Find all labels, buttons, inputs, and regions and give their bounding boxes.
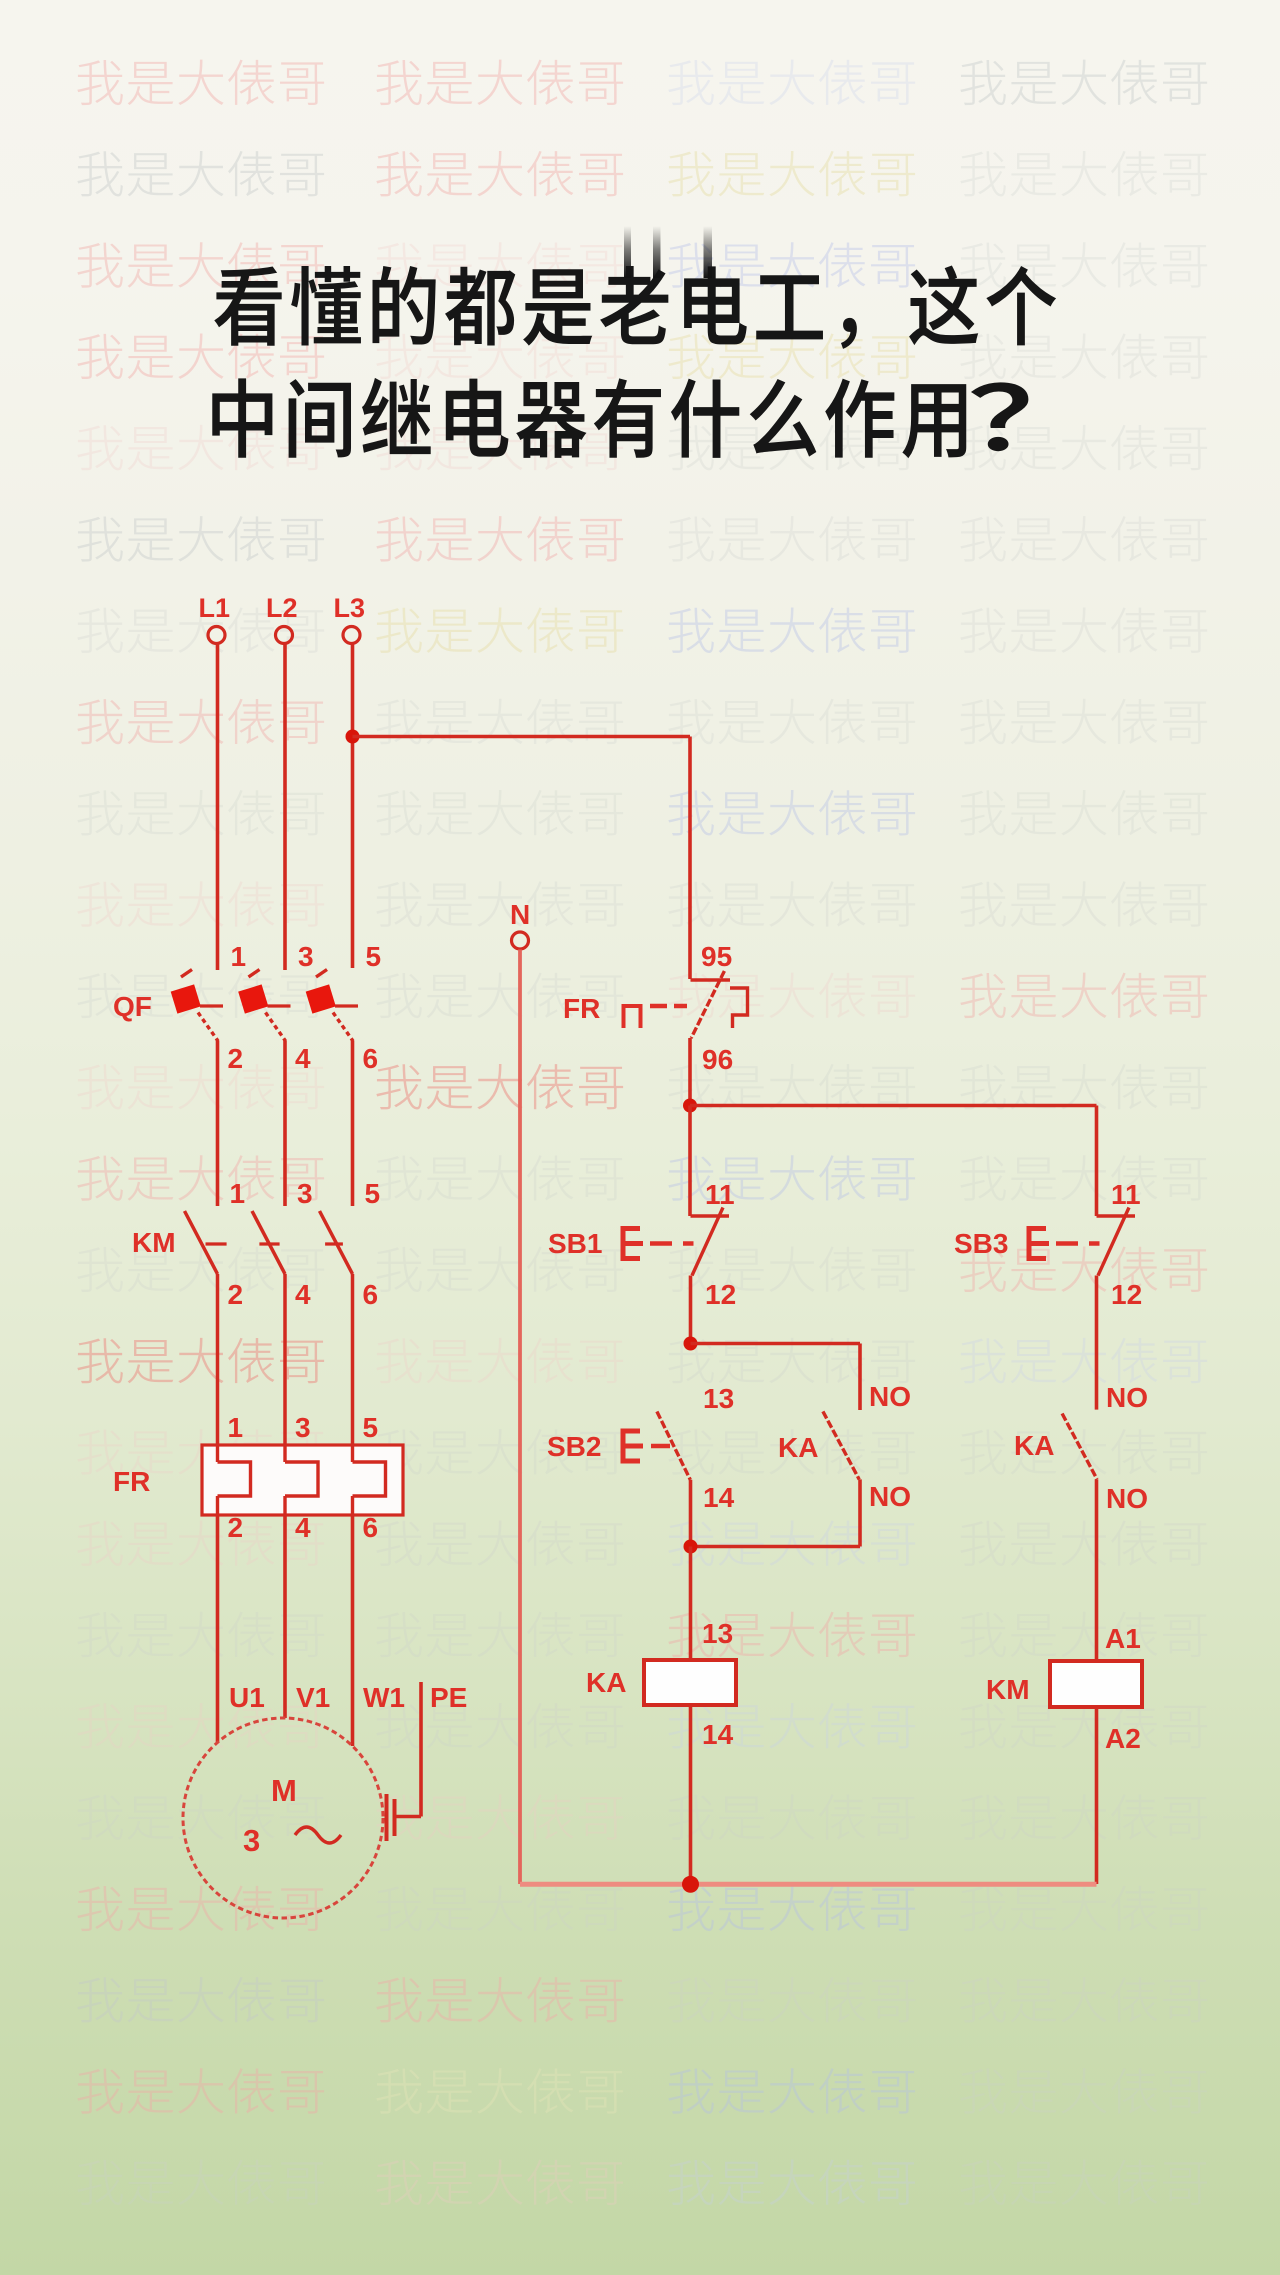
wire KA coil to N rail bbox=[689, 1705, 693, 1884]
wire KM coil to N rail bbox=[1095, 1707, 1099, 1884]
wire SB1 to node 13 bbox=[689, 1276, 693, 1344]
svg-text:14: 14 bbox=[702, 1719, 734, 1750]
svg-text:A2: A2 bbox=[1105, 1723, 1141, 1754]
svg-text:M: M bbox=[271, 1773, 297, 1808]
svg-text:3: 3 bbox=[298, 941, 314, 972]
wire latch branch bottom bbox=[691, 1479, 861, 1546]
svg-text:1: 1 bbox=[230, 1178, 246, 1209]
svg-text:U1: U1 bbox=[229, 1682, 265, 1713]
contactor KM main contact pole 2 bbox=[252, 1178, 313, 1310]
contactor KM main contacts label bbox=[132, 1227, 176, 1258]
svg-text:NO: NO bbox=[869, 1481, 911, 1512]
wire KM-6 to FR bbox=[351, 1274, 355, 1447]
svg-text:KA: KA bbox=[1014, 1430, 1054, 1461]
svg-text:4: 4 bbox=[295, 1043, 311, 1074]
svg-text:4: 4 bbox=[295, 1512, 311, 1543]
svg-text:3: 3 bbox=[295, 1412, 311, 1443]
node self-latch top bbox=[684, 1337, 698, 1351]
svg-text:KM: KM bbox=[132, 1227, 176, 1258]
contactor KM main contact pole 1 bbox=[185, 1178, 246, 1310]
svg-text:SB2: SB2 bbox=[547, 1431, 601, 1462]
terminal L1 bbox=[199, 593, 231, 644]
wire SB3 to KA contact bbox=[1095, 1276, 1099, 1410]
wire branch to SB3 bbox=[690, 1106, 1097, 1217]
FR NC contact 95-96 bbox=[563, 941, 748, 1075]
relay coil KA bbox=[586, 1618, 736, 1750]
svg-text:12: 12 bbox=[1111, 1279, 1142, 1310]
svg-text:14: 14 bbox=[703, 1482, 735, 1513]
svg-text:V1: V1 bbox=[296, 1682, 330, 1713]
wire node to KA coil bbox=[689, 1547, 693, 1661]
svg-text:A1: A1 bbox=[1105, 1623, 1141, 1654]
svg-text:KA: KA bbox=[586, 1667, 626, 1698]
pushbutton SB2 (NO start) bbox=[547, 1412, 735, 1514]
svg-text:KA: KA bbox=[778, 1432, 818, 1463]
contact KA self-latch (NO) bbox=[778, 1411, 911, 1512]
motor M 3~ bbox=[183, 1718, 383, 1918]
svg-text:11: 11 bbox=[1111, 1179, 1141, 1210]
node control tap on L3 bbox=[346, 730, 360, 744]
FR heater element pole 2 bbox=[285, 1445, 318, 1543]
svg-text:W1: W1 bbox=[363, 1682, 405, 1713]
label 13 / NO bbox=[703, 1381, 911, 1414]
node 96 branch bbox=[683, 1099, 697, 1113]
wire L3 to QF bbox=[351, 644, 355, 968]
svg-text:FR: FR bbox=[113, 1466, 150, 1497]
wire V1 bbox=[283, 1515, 287, 1718]
svg-text:6: 6 bbox=[363, 1279, 379, 1310]
breaker QF pole 2 bbox=[238, 941, 313, 1074]
wire KM-2 to FR bbox=[216, 1274, 220, 1447]
wire KA contact to KM coil bbox=[1095, 1479, 1099, 1661]
wire QF-6 to KM bbox=[351, 1041, 355, 1207]
breaker QF pole 3 bbox=[306, 941, 381, 1074]
svg-text:2: 2 bbox=[228, 1512, 244, 1543]
svg-text:L3: L3 bbox=[334, 593, 366, 623]
title text line 1 bbox=[214, 265, 1056, 348]
node self-latch bottom bbox=[684, 1540, 698, 1554]
svg-text:KM: KM bbox=[986, 1674, 1030, 1705]
svg-text:4: 4 bbox=[295, 1279, 311, 1310]
svg-text:5: 5 bbox=[363, 1412, 379, 1443]
pushbutton SB3 (NC) bbox=[954, 1179, 1142, 1310]
svg-text:NO: NO bbox=[869, 1381, 911, 1412]
wire control feed horizontal bbox=[353, 735, 691, 739]
svg-text:SB3: SB3 bbox=[954, 1228, 1008, 1259]
svg-text:96: 96 bbox=[702, 1044, 733, 1075]
N bottom rail bbox=[520, 1882, 1097, 1887]
svg-text:PE: PE bbox=[430, 1682, 467, 1713]
PE earth wire bbox=[394, 1682, 421, 1817]
KM linkage dashes bbox=[206, 1242, 343, 1245]
svg-text:1: 1 bbox=[228, 1412, 244, 1443]
FR heater element pole 3 bbox=[353, 1445, 386, 1543]
svg-text:11: 11 bbox=[705, 1179, 735, 1210]
terminal N bbox=[510, 899, 530, 949]
wire U1 bbox=[216, 1515, 220, 1742]
terminal L3 bbox=[334, 593, 366, 644]
svg-text:SB1: SB1 bbox=[548, 1228, 602, 1259]
wire node to SB1 bbox=[688, 1106, 692, 1217]
contactor KM main contact pole 3 bbox=[320, 1178, 381, 1310]
breaker QF pole 1 bbox=[171, 941, 246, 1074]
wire QF-2 to KM bbox=[216, 1041, 220, 1207]
contact KA (NO) right bbox=[1014, 1382, 1148, 1514]
title text line 2 bbox=[212, 378, 1028, 458]
svg-text:L1: L1 bbox=[199, 593, 231, 623]
svg-text:1: 1 bbox=[231, 941, 247, 972]
wire control feed vertical to FR 95 bbox=[688, 737, 692, 980]
svg-text:12: 12 bbox=[705, 1279, 736, 1310]
svg-text:6: 6 bbox=[363, 1512, 379, 1543]
wire L1 to QF bbox=[216, 644, 220, 970]
svg-text:5: 5 bbox=[365, 1178, 381, 1209]
wire L2 to QF bbox=[283, 644, 287, 970]
svg-text:NO: NO bbox=[1106, 1483, 1148, 1514]
contactor coil KM bbox=[986, 1623, 1142, 1754]
fading stroke tops above title bbox=[624, 226, 712, 278]
svg-text:95: 95 bbox=[701, 941, 732, 972]
svg-text:N: N bbox=[510, 899, 530, 930]
wire KM-4 to FR bbox=[283, 1274, 287, 1447]
svg-text:QF: QF bbox=[113, 991, 152, 1022]
svg-text:5: 5 bbox=[366, 941, 382, 972]
wire W1 bbox=[351, 1515, 355, 1746]
wire 96 to node bbox=[688, 1038, 692, 1106]
svg-text:FR: FR bbox=[563, 993, 600, 1024]
label U1 V1 W1 PE bbox=[229, 1682, 467, 1713]
wire N riser bbox=[518, 950, 522, 1885]
svg-text:2: 2 bbox=[228, 1279, 244, 1310]
svg-text:13: 13 bbox=[702, 1618, 733, 1649]
svg-text:2: 2 bbox=[228, 1043, 244, 1074]
PE terminal bars bbox=[387, 1794, 395, 1841]
breaker QF label bbox=[113, 991, 152, 1022]
pushbutton SB1 (NC stop) bbox=[548, 1179, 736, 1310]
svg-text:6: 6 bbox=[363, 1043, 379, 1074]
wire QF-4 to KM bbox=[283, 1041, 287, 1207]
FR heater element pole 1 bbox=[218, 1445, 251, 1543]
svg-text:NO: NO bbox=[1106, 1382, 1148, 1413]
svg-text:3: 3 bbox=[297, 1178, 313, 1209]
svg-text:3: 3 bbox=[243, 1823, 260, 1858]
svg-text:L2: L2 bbox=[266, 593, 298, 623]
node KA coil on N rail bbox=[682, 1876, 699, 1893]
svg-text:13: 13 bbox=[703, 1383, 734, 1414]
wire SB2 to node 14 bbox=[689, 1480, 693, 1547]
thermal overload FR heater box bbox=[113, 1412, 403, 1515]
wire latch branch top bbox=[691, 1344, 861, 1411]
terminal L2 bbox=[266, 593, 298, 644]
